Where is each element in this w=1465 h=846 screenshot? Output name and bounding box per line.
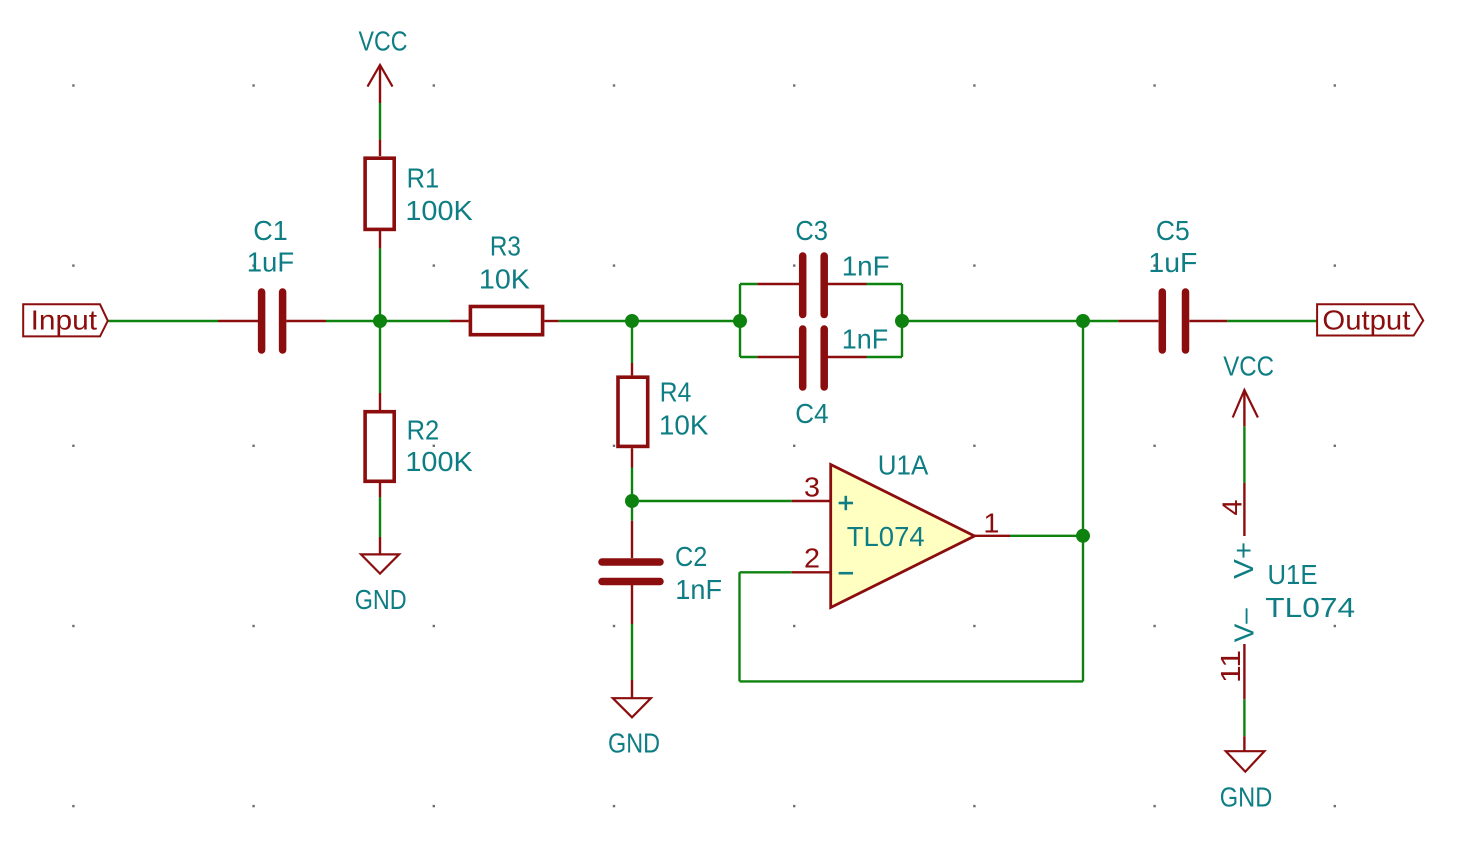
- svg-text:10K: 10K: [479, 264, 530, 295]
- svg-text:GND: GND: [1220, 782, 1273, 813]
- svg-text:10K: 10K: [659, 409, 709, 440]
- svg-text:1: 1: [983, 508, 999, 539]
- svg-text:C1: C1: [253, 215, 287, 246]
- svg-text:R3: R3: [490, 231, 521, 262]
- svg-text:Output: Output: [1322, 305, 1410, 336]
- svg-text:R1: R1: [407, 163, 440, 194]
- svg-text:4: 4: [1217, 500, 1248, 516]
- svg-text:V–: V–: [1229, 608, 1260, 642]
- svg-text:R2: R2: [407, 415, 440, 446]
- svg-text:U1E: U1E: [1268, 559, 1318, 590]
- svg-text:2: 2: [804, 542, 820, 573]
- svg-text:TL074: TL074: [1265, 592, 1355, 623]
- svg-text:V+: V+: [1228, 542, 1259, 579]
- svg-text:TL074: TL074: [847, 521, 925, 552]
- svg-text:3: 3: [804, 471, 820, 502]
- svg-text:C5: C5: [1156, 215, 1190, 246]
- svg-text:VCC: VCC: [1223, 351, 1274, 382]
- svg-text:GND: GND: [355, 584, 407, 615]
- svg-text:100K: 100K: [405, 446, 473, 477]
- svg-text:Input: Input: [31, 304, 98, 335]
- svg-text:C2: C2: [675, 541, 707, 572]
- svg-text:U1A: U1A: [878, 449, 929, 480]
- svg-text:1nF: 1nF: [675, 574, 722, 605]
- svg-text:C4: C4: [795, 398, 828, 429]
- svg-text:VCC: VCC: [359, 26, 408, 57]
- svg-text:GND: GND: [608, 728, 660, 759]
- svg-text:1nF: 1nF: [842, 323, 888, 354]
- svg-text:1nF: 1nF: [842, 251, 890, 282]
- svg-text:1uF: 1uF: [1148, 247, 1197, 278]
- svg-text:1uF: 1uF: [247, 247, 295, 278]
- svg-text:C3: C3: [795, 215, 828, 246]
- svg-text:11: 11: [1215, 650, 1246, 683]
- svg-text:R4: R4: [660, 377, 692, 408]
- svg-text:100K: 100K: [405, 195, 473, 226]
